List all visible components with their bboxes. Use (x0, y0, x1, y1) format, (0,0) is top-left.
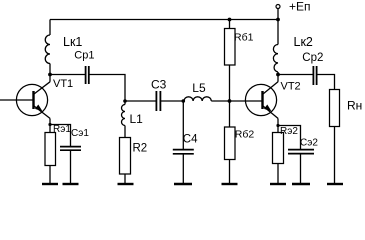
node Re1/Ce1 junction (48, 123, 51, 126)
capacitor Cp1 (86, 66, 89, 84)
wire base input (0, 99, 34, 101)
wire R2 to ground (124, 174, 126, 183)
svg-text:L5: L5 (192, 81, 206, 95)
resistor Re2 (273, 133, 284, 164)
svg-text:Rн: Rн (347, 98, 362, 112)
node L1 top junction (123, 99, 127, 103)
node base VT2 junction (228, 99, 232, 103)
wire to Ce2 (278, 126, 301, 150)
inductor Lk1 (45, 20, 50, 82)
resistor Re1 (45, 133, 56, 166)
ground Ce2 (292, 183, 310, 185)
wire Cp1 to L1 node (89, 75, 125, 102)
svg-text:Ср1: Ср1 (74, 50, 94, 62)
svg-text:Lк1: Lк1 (63, 35, 82, 49)
resistor R2 (120, 138, 131, 175)
wire to Ce1 (50, 125, 71, 147)
node collector VT1 / Cp1 tap (48, 73, 52, 77)
capacitor C3 (156, 91, 160, 111)
ground Ce1 (63, 183, 79, 185)
capacitor C4 (173, 150, 194, 154)
wire +Ep stub (277, 9, 279, 20)
wire C4 to ground (182, 154, 184, 183)
svg-text:Ср2: Ср2 (302, 52, 323, 64)
svg-text:VT2: VT2 (281, 80, 301, 92)
svg-text:VT1: VT1 (53, 78, 73, 90)
svg-text:C3: C3 (151, 77, 167, 91)
wire Rn to ground (334, 127, 336, 184)
wire L1 node to C3 (125, 100, 156, 102)
capacitor Ce2 (288, 150, 314, 154)
wire Ce1 to ground (70, 151, 72, 184)
node collector VT2 / Cp2 tap (276, 73, 280, 77)
inductor L5 (184, 97, 211, 101)
node rail/+Ep junction (276, 18, 280, 22)
capacitor Cp2 (313, 66, 316, 85)
wire emitter VT1 down (49, 118, 51, 133)
transistor VT2 (245, 82, 278, 119)
svg-text:R2: R2 (133, 142, 148, 154)
svg-text:Rб1: Rб1 (234, 32, 254, 44)
resistor Rn (330, 90, 340, 127)
ground R2 (118, 183, 134, 185)
inductor Lk2 (273, 20, 278, 82)
svg-text:Cэ1: Cэ1 (71, 128, 89, 139)
ground Re2 (270, 183, 286, 185)
inductor L1 (122, 101, 126, 138)
resistor Rb2 (225, 127, 236, 160)
svg-text:C4: C4 (183, 133, 198, 145)
svg-text:Rб2: Rб2 (235, 128, 255, 140)
wire C4 branch down (182, 101, 184, 149)
ground C4 (174, 183, 192, 185)
capacitor Ce1 (60, 147, 81, 151)
node Re2/Ce2 junction (276, 124, 279, 127)
wire Rb2 to ground (229, 160, 231, 184)
ground Rb2 (222, 183, 238, 185)
node C4/L5 junction (182, 99, 186, 103)
svg-text:Cэ2: Cэ2 (300, 138, 318, 149)
wire collector node to Cp1 (50, 74, 85, 76)
wire L5 to bias node (211, 100, 262, 102)
svg-text:Rэ1: Rэ1 (53, 124, 71, 135)
wire emitter VT2 down (277, 118, 279, 133)
transistor VT1 (0, 82, 50, 119)
resistor Rb1 (225, 29, 236, 66)
wire Re2 to ground (277, 164, 279, 184)
wire top supply rail (50, 19, 278, 21)
node rail/Rb1 junction (228, 18, 232, 22)
wire Re1 to ground (49, 166, 51, 184)
ground Re1 (42, 183, 58, 185)
svg-text:Rэ2: Rэ2 (280, 126, 298, 137)
wire rail to Rb1 (229, 20, 231, 29)
svg-text:Lк2: Lк2 (294, 35, 313, 49)
svg-text:+Eп: +Eп (289, 0, 311, 13)
svg-text:L1: L1 (130, 112, 144, 126)
wire collector node to Cp2 (278, 74, 313, 76)
wire Rb1 to base node (229, 65, 231, 127)
ground Rn (327, 183, 343, 185)
wire C3 to C4/L5 node (161, 100, 184, 102)
terminal +Ep (276, 5, 280, 9)
wire Ce2 to ground (300, 154, 302, 183)
wire Cp2 to Rn (317, 75, 335, 90)
